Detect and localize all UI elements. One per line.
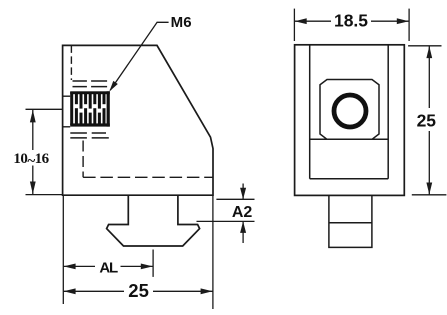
hidden hole dashed vertical (upper) <box>70 45 72 80</box>
dim 18.5: extension lines <box>293 9 295 41</box>
left view: bracket body outline <box>63 45 213 195</box>
T-slot centerline <box>152 250 154 277</box>
dim 10~16: dimension line + arrows <box>32 110 34 150</box>
svg-text:M6: M6 <box>171 14 192 31</box>
right view: tab divider <box>329 222 372 224</box>
svg-text:10~16: 10~16 <box>13 151 49 170</box>
dim 25 (right): extension lines <box>408 45 441 47</box>
right view: screw circle (thick ring) <box>334 95 366 127</box>
screw tip lines to left plate <box>63 95 71 97</box>
svg-text:A2: A2 <box>232 204 253 221</box>
dim 18.5: dimension line + arrows <box>294 20 331 22</box>
svg-text:18.5: 18.5 <box>334 11 368 31</box>
left ext line below body (left) <box>62 195 64 304</box>
dim A2: extension lines <box>216 198 254 200</box>
hidden internal corner dashed vertical (lower) <box>82 141 84 178</box>
right view: octagon boss <box>320 80 379 140</box>
svg-text:25: 25 <box>128 280 149 301</box>
dim AL: dimension line + arrows <box>63 265 95 267</box>
hidden thread hole dashed lines below screw <box>70 133 109 138</box>
svg-text:AL: AL <box>99 260 118 277</box>
dim A2: arrows above/below <box>242 184 244 200</box>
hidden thread hole dashed lines above screw <box>73 81 108 87</box>
dim 10~16: extension lines <box>26 108 63 110</box>
dim 25 (bottom): dimension line + arrows <box>63 290 124 292</box>
dim 25 (right): dimension line + arrows <box>428 46 430 108</box>
right view: inner bottom line <box>310 178 389 180</box>
right view: divider under octagon <box>310 138 389 140</box>
M6 leader arrowhead <box>109 81 118 92</box>
right ext line below body <box>212 195 214 309</box>
right view: bottom tab <box>329 195 372 247</box>
right view: inner right wall <box>387 45 389 179</box>
right view: outer rectangle <box>295 45 405 196</box>
left view: T-slot nut profile below body <box>107 195 200 246</box>
set screw threaded body (striped block) <box>70 91 110 126</box>
M6 leader line <box>110 22 168 90</box>
hidden internal dashed horizontal across body <box>83 176 213 178</box>
svg-text:25: 25 <box>417 111 437 131</box>
right view: inner left wall <box>309 45 311 179</box>
